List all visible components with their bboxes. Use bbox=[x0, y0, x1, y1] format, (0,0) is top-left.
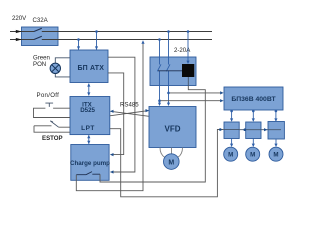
svg-text:БП36В 400ВТ: БП36В 400ВТ bbox=[231, 96, 276, 103]
power supply U5 БП36В 400ВТ bbox=[224, 87, 283, 110]
wire L rail (220V line) bbox=[10, 31, 212, 33]
drive U4 VFD bbox=[149, 107, 196, 148]
driver A3 bbox=[268, 122, 284, 140]
svg-text:БП ATX: БП ATX bbox=[77, 65, 104, 72]
switch SB2 ESTOP bbox=[34, 121, 70, 132]
svg-text:RS485: RS485 bbox=[120, 101, 139, 108]
svg-text:LPT: LPT bbox=[81, 125, 95, 132]
svg-text:M: M bbox=[273, 152, 278, 159]
svg-text:M: M bbox=[250, 152, 255, 159]
wire contactor out to PSU36 input 2 bbox=[158, 99, 223, 102]
motor M4 bbox=[269, 147, 283, 161]
driver A1 bbox=[224, 122, 239, 139]
wire charge pump latch to N rail bbox=[76, 40, 144, 190]
arrow input N bbox=[16, 38, 22, 41]
wire drop rail N to ATX bbox=[77, 38, 80, 50]
breaker QF1 contact blades bbox=[34, 28, 42, 39]
arrow input L bbox=[16, 30, 22, 33]
wire LPT to stepper drivers bbox=[110, 128, 224, 197]
wire RS485 VFD to ITX bbox=[110, 109, 149, 116]
motor M2 bbox=[224, 147, 238, 161]
svg-text:Pon/Off: Pon/Off bbox=[37, 92, 60, 99]
contactor pole 2 bbox=[166, 30, 170, 106]
wire contactor out to PSU36 input 1 bbox=[167, 91, 223, 94]
mechanical link poles to coil bbox=[158, 70, 182, 72]
driver A2 bbox=[246, 122, 261, 139]
pushbutton SB1 Pon/Off bbox=[34, 103, 71, 117]
wire PSU36 to driver A2 bbox=[252, 110, 255, 122]
wire charge pump contact to contactor coil bbox=[100, 86, 205, 182]
contactor pole 1 bbox=[157, 38, 161, 106]
module U3 Charge pump bbox=[70, 145, 110, 181]
wire PSU36 to driver A3 bbox=[274, 110, 277, 122]
power supply U1 БП ATX bbox=[70, 50, 108, 83]
wire RS485 ITX to VFD bbox=[110, 110, 149, 117]
wire driver A2 to motor M3 bbox=[252, 139, 255, 148]
svg-text:D525: D525 bbox=[80, 107, 95, 114]
contactor KM1 2-20A box bbox=[150, 57, 196, 86]
wire drop rail L to ATX bbox=[95, 30, 98, 50]
svg-text:2-20A: 2-20A bbox=[174, 47, 191, 54]
wire driver A1 to motor M2 bbox=[230, 139, 233, 148]
node double arrow ITX-ChargePump bbox=[87, 135, 90, 144]
motor M1 spindle bbox=[160, 148, 183, 170]
svg-text:M: M bbox=[228, 152, 233, 159]
svg-text:VFD: VFD bbox=[165, 124, 181, 133]
node double arrow ATX-ITX bbox=[87, 83, 90, 96]
coil K1 (black square) bbox=[182, 30, 194, 86]
svg-text:220V: 220V bbox=[12, 15, 27, 22]
svg-text:M: M bbox=[168, 159, 174, 166]
breaker QF1 C32A body bbox=[22, 27, 59, 46]
wire driver A3 to motor M4 bbox=[274, 139, 277, 147]
switch K1 contact in charge pump bbox=[76, 172, 100, 175]
wire ATX out2 to charge pump bbox=[108, 73, 124, 156]
svg-text:PON: PON bbox=[33, 61, 46, 68]
wire PSU36 to driver A1 bbox=[230, 110, 233, 122]
svg-text:Charge pump: Charge pump bbox=[70, 160, 110, 167]
computer U2 ITX D525 bbox=[70, 97, 110, 135]
wire ATX out1 to charge pump bbox=[108, 57, 135, 173]
wire step/dir bus through drivers bbox=[223, 128, 281, 131]
wire N rail (220V neutral) bbox=[10, 39, 212, 41]
lamp HL1 Green PON bbox=[50, 58, 70, 77]
svg-text:ESTOP: ESTOP bbox=[42, 135, 63, 142]
motor M3 bbox=[246, 147, 260, 161]
svg-text:C32A: C32A bbox=[33, 17, 49, 24]
